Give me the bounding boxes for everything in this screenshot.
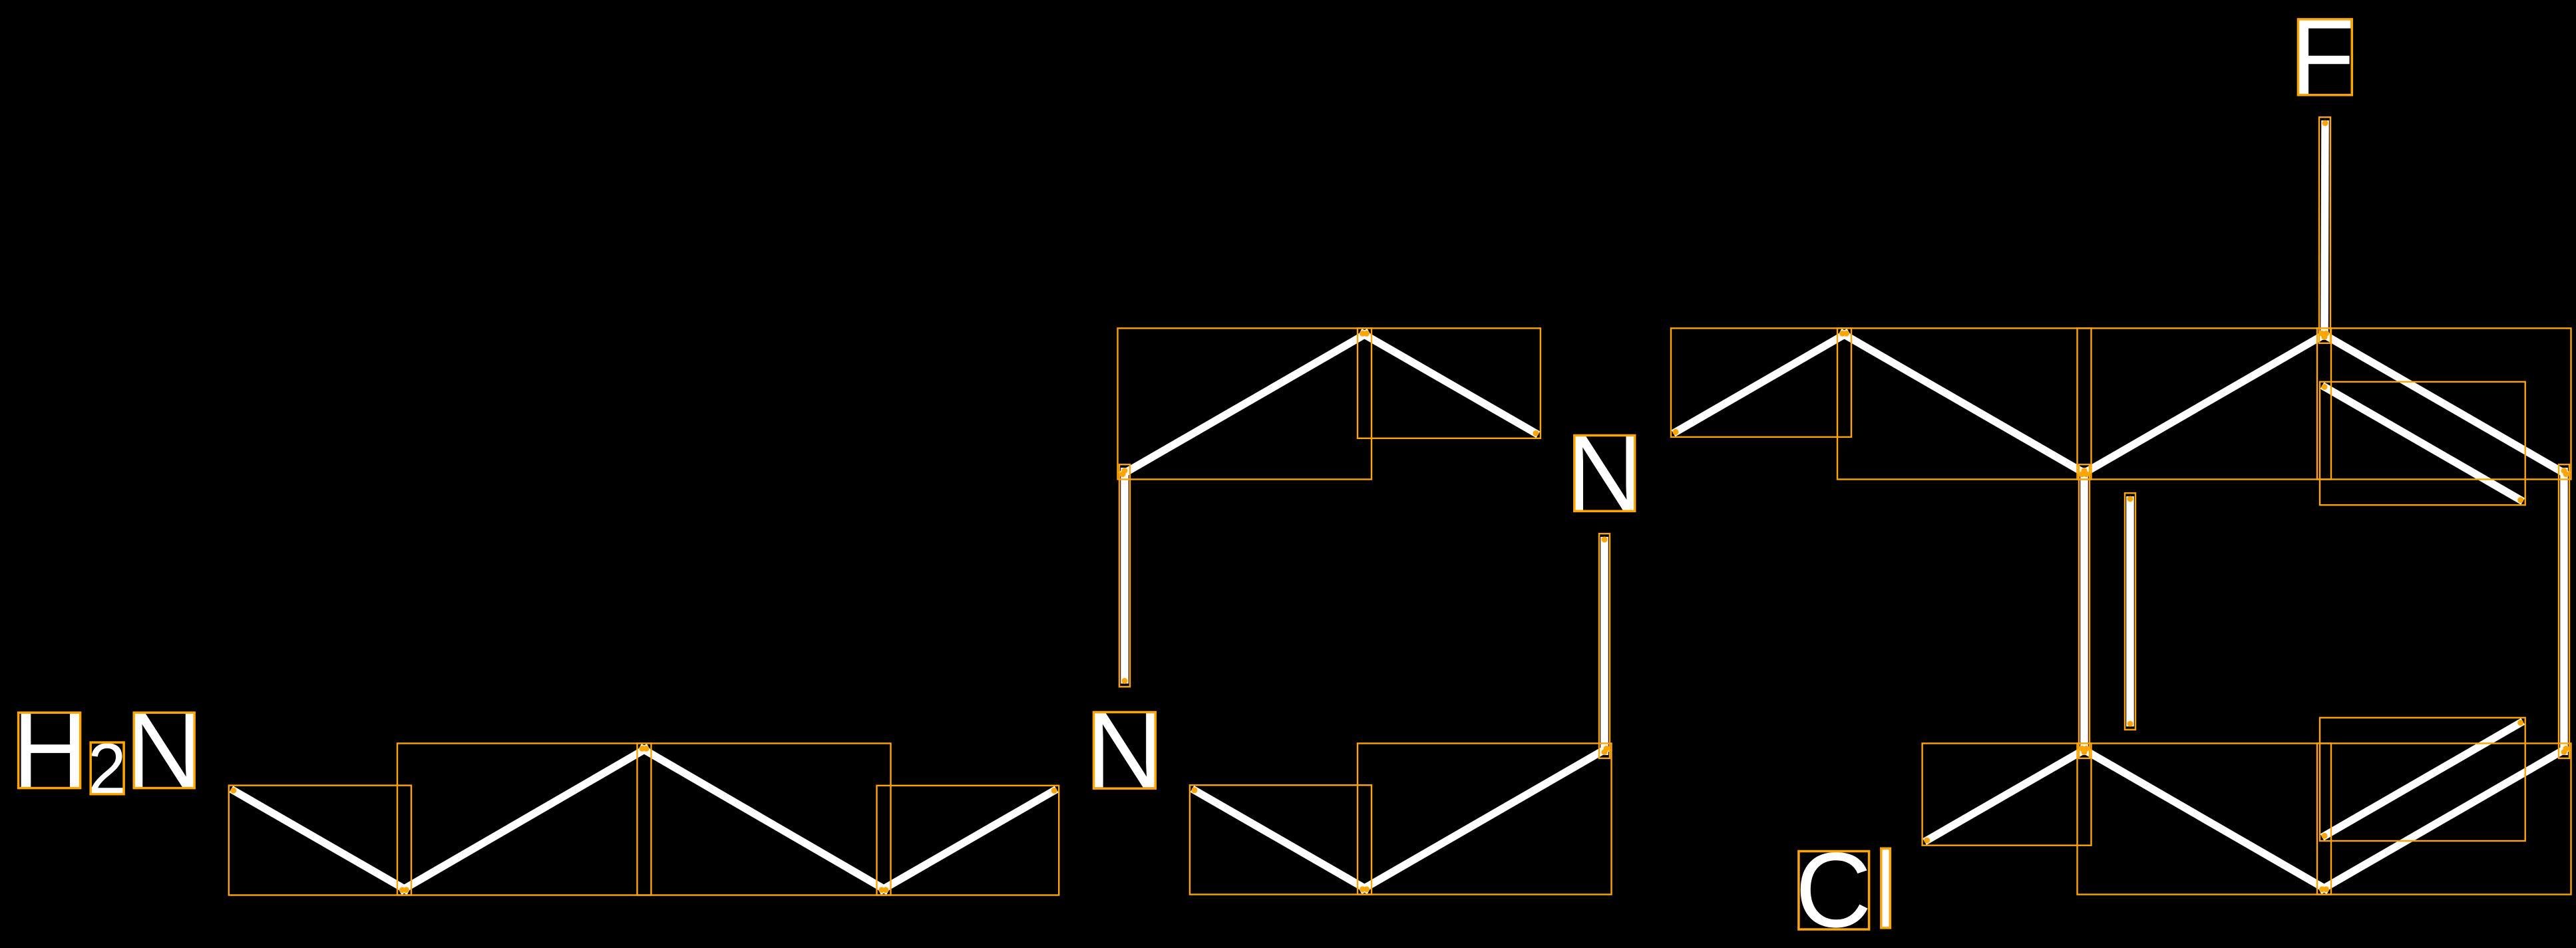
endpoint dots of bond C11-C12 [1839, 331, 2090, 477]
endpoint dots of bond C10-N5 [1191, 787, 1370, 892]
bond N8-C11 benzylic [1674, 332, 1849, 433]
bbox of atom label H of H2N [19, 712, 81, 788]
bbox of atom label C of Cl [1799, 852, 1869, 930]
bond C12-C13 aromatic [2080, 332, 2328, 476]
bbox of atom label N of H2N [134, 712, 194, 788]
bbox of bond C12-C17 double inner line [2125, 493, 2135, 730]
endpoint dots of bond C15-C16 double inner line [2322, 720, 2524, 839]
bbox of bond C7-N8 [1358, 328, 1541, 438]
bbox of bond C17-Cl [1923, 743, 2092, 845]
bond N8-C9 piperazine right vertical [1600, 537, 1608, 755]
atom label N of H2N [134, 713, 195, 787]
bbox of bond C16-C17 aromatic [2078, 743, 2332, 894]
bbox of bond C9-C10 [1358, 743, 1612, 894]
bond C15-C16 aromatic double outer [2320, 747, 2569, 891]
bond C12-C17 aromatic double outer [2080, 468, 2088, 755]
bbox of atom label F [2298, 19, 2352, 95]
endpoint dots of bond N5-C6 piperazine left vertical [1122, 468, 1128, 684]
bbox of bond N8-C11 benzylic [1671, 328, 1851, 437]
bbox of atom label N piperazine left [1094, 712, 1156, 789]
bbox of bond C14-C15 aromatic [2559, 464, 2569, 758]
bond C7-N8 [1360, 332, 1539, 434]
endpoint dots of bond C12-C17 aromatic double outer [2082, 468, 2088, 755]
endpoint dots of bond C3-C4 [640, 746, 889, 893]
atom label C of Cl [1801, 852, 1868, 928]
bbox of bond C12-C17 aromatic double outer [2079, 464, 2090, 758]
endpoint dots of bond N8-C11 benzylic [1673, 331, 1850, 435]
bond C17-Cl [1925, 747, 2089, 842]
endpoint dots of bond C12-C13 aromatic [2080, 331, 2330, 477]
bond C3-C4 [640, 747, 888, 891]
bond C15-C16 double inner line [2322, 721, 2523, 837]
endpoint dots of bond C13-C14 aromatic double outer [2319, 331, 2569, 477]
atom label N piperazine left [1094, 713, 1155, 787]
endpoint dots of bond H2N-C2 [230, 788, 409, 893]
atom label F [2299, 20, 2350, 94]
endpoint dots of bond C13-F [2322, 120, 2328, 341]
endpoint dots of bond C14-C15 aromatic [2561, 468, 2567, 755]
bbox of bond C11-C12 [1837, 328, 2092, 479]
bond C10-N5 [1192, 789, 1369, 891]
bond C4-N5 [879, 789, 1057, 891]
bbox of bond C13-F [2319, 117, 2330, 343]
atom label N piperazine right [1574, 436, 1635, 510]
bond C11-C12 [1840, 332, 2089, 476]
endpoint dots of bond C6-C7 [1120, 331, 1370, 477]
bbox of bond N5-C6 piperazine left vertical [1119, 464, 1130, 687]
bbox of bond H2N-C2 [229, 786, 411, 895]
bbox of bond C13-C14 aromatic double outer [2317, 328, 2571, 479]
bbox of bond C13-C14 double inner line [2320, 382, 2525, 505]
endpoint dots of bond N8-C9 piperazine right vertical [1602, 537, 1608, 756]
bond C2-C3 [400, 747, 649, 891]
bond C16-C17 aromatic [2080, 747, 2328, 891]
bbox of bond C12-C13 aromatic [2078, 328, 2332, 479]
endpoint dots of bond C15-C16 aromatic double outer [2319, 746, 2569, 892]
endpoint dots of bond C4-N5 [879, 788, 1057, 893]
endpoint dots of bond C17-Cl [1924, 746, 2089, 844]
bbox of bond C4-N5 [877, 786, 1059, 895]
bond C13-C14 double inner line [2322, 386, 2523, 502]
endpoint dots of bond C16-C17 aromatic [2080, 746, 2330, 892]
bbox of bond C15-C16 double inner line [2320, 718, 2525, 841]
bbox of bond C10-N5 [1190, 785, 1372, 894]
bond C6-C7 [1120, 332, 1369, 476]
bbox of atom label N piperazine right [1574, 436, 1635, 512]
endpoint dots of bond C13-C14 double inner line [2322, 384, 2524, 503]
bbox of atom label l of Cl [1881, 848, 1891, 928]
bbox of bond C3-C4 [638, 743, 891, 895]
bbox of bond N8-C9 piperazine right vertical [1599, 534, 1610, 758]
endpoint dots of bond C9-C10 [1360, 746, 1610, 892]
bond C14-C15 aromatic [2560, 468, 2568, 755]
bond C9-C10 [1360, 747, 1609, 891]
bond H2N-C2 [231, 789, 409, 891]
bbox of bond C6-C7 [1118, 328, 1372, 479]
bond C12-C17 double inner line [2126, 496, 2134, 726]
atom label H of H2N [21, 713, 80, 787]
endpoint dots of bond C12-C17 double inner line [2127, 496, 2133, 727]
subscript 2 of H2N [91, 743, 122, 793]
endpoint dots of bond C2-C3 [399, 746, 649, 893]
bond C13-F [2324, 120, 2325, 340]
bond N5-C6 piperazine left vertical [1121, 468, 1129, 684]
bond C13-C14 aromatic double outer [2320, 332, 2569, 476]
atom label l of Cl [1882, 848, 1890, 928]
bbox of subscript 2 of H2N [91, 742, 124, 794]
bbox of bond C2-C3 [397, 743, 651, 895]
endpoint dots of bond C7-N8 [1360, 331, 1539, 436]
bbox of bond C15-C16 aromatic double outer [2317, 743, 2571, 894]
